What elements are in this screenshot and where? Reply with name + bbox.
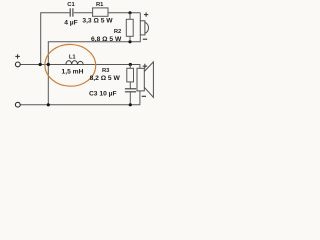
- highlight ellipse orange: [44, 44, 96, 88]
- resistor R2: [91, 13, 133, 43]
- wire mid rail: [20, 65, 140, 69]
- svg-text:1,5 mH: 1,5 mH: [62, 69, 84, 76]
- svg-text:R3: R3: [102, 68, 110, 74]
- svg-text:C1: C1: [67, 2, 75, 8]
- svg-text:3,3 Ω 5 W: 3,3 Ω 5 W: [82, 17, 113, 24]
- terminal + input: [15, 62, 20, 67]
- woofer speaker: [137, 62, 153, 97]
- svg-text:L1: L1: [69, 55, 77, 61]
- tweeter speaker: [140, 12, 148, 39]
- node R2 bottom: [128, 40, 131, 43]
- node C3 bottom: [129, 103, 132, 106]
- inductor L1: [62, 55, 84, 76]
- wire bottom rail: [20, 91, 140, 105]
- svg-text:R2: R2: [114, 29, 121, 35]
- capacitor C3: [89, 82, 136, 105]
- resistor R3: [90, 65, 134, 83]
- svg-text:8,2 Ω 5 W: 8,2 Ω 5 W: [90, 75, 121, 82]
- node A top: [128, 11, 131, 14]
- wire top rail: [41, 13, 141, 65]
- resistor R1: [82, 2, 113, 25]
- node input junction: [39, 63, 42, 66]
- svg-text:4 µF: 4 µF: [64, 19, 78, 26]
- capacitor C1: [64, 2, 78, 27]
- node mid R3 junction: [129, 63, 132, 66]
- svg-text:C3 10 µF: C3 10 µF: [89, 90, 117, 97]
- wire tweeter return rail: [48, 35, 140, 105]
- node crossing junction: [47, 63, 50, 66]
- terminal - input: [15, 102, 20, 107]
- node ground junction: [47, 103, 50, 106]
- svg-text:R1: R1: [96, 2, 104, 8]
- svg-text:6,8 Ω 5 W: 6,8 Ω 5 W: [91, 36, 122, 43]
